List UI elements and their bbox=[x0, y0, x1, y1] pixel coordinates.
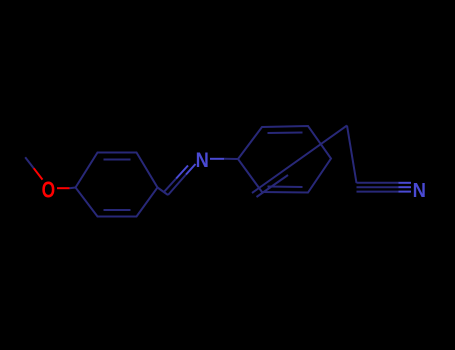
svg-text:O: O bbox=[42, 177, 56, 203]
svg-text:N: N bbox=[196, 149, 209, 173]
svg-text:N: N bbox=[413, 179, 426, 202]
